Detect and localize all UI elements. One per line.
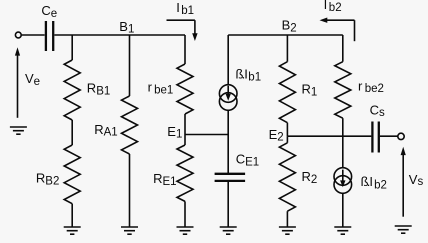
- wire r_be2 to E2: [342, 118, 344, 136]
- ground (CE1): [220, 226, 237, 228]
- svg-text:Cs: Cs: [370, 103, 385, 120]
- ground (R2): [279, 226, 296, 228]
- svg-text:RE1: RE1: [153, 171, 176, 188]
- output arrow Vs: [401, 147, 406, 155]
- wire R2 to ground: [286, 211, 288, 227]
- svg-text:RA1: RA1: [94, 122, 117, 139]
- output terminal circle: [398, 133, 404, 139]
- wire R1 to E2: [286, 123, 288, 137]
- current arrow I_b2: [327, 19, 355, 21]
- svg-text:I: I: [324, 0, 328, 12]
- capacitor CE1: [215, 174, 246, 181]
- current source U2 circles: [334, 168, 352, 186]
- current source U1 circles: [219, 85, 237, 103]
- ground (RB2): [64, 226, 81, 228]
- node E2 wire: [287, 135, 371, 137]
- wire B1 down to RA1: [129, 35, 131, 96]
- ground (input): [10, 126, 27, 128]
- capacitor Cs: [372, 122, 378, 153]
- svg-text:r: r: [148, 80, 153, 95]
- current source U1 beta.I b1 top lead: [227, 35, 229, 85]
- svg-text:b1: b1: [181, 5, 194, 17]
- svg-text:Ve: Ve: [25, 71, 40, 88]
- svg-text:b2: b2: [329, 2, 342, 14]
- svg-text:R2: R2: [302, 169, 318, 186]
- current source U2 beta.I b2 top lead: [342, 136, 344, 168]
- wire input to Ce: [21, 34, 44, 36]
- svg-text:b2: b2: [374, 180, 387, 192]
- svg-text:B1: B1: [119, 19, 134, 36]
- svg-text:be2: be2: [365, 83, 384, 95]
- svg-text:RB1: RB1: [87, 81, 110, 98]
- svg-text:I: I: [176, 0, 180, 15]
- wire Cs to output terminal: [380, 135, 398, 137]
- resistor r_be2: [335, 62, 351, 118]
- resistor r_be2 lead: [342, 35, 344, 62]
- svg-text:Vs: Vs: [409, 172, 424, 188]
- resistor RB1: [64, 60, 80, 120]
- svg-text:be1: be1: [154, 85, 173, 97]
- svg-text:b1: b1: [248, 72, 261, 84]
- wire Ce to r_be1 top (through B1): [54, 34, 185, 36]
- svg-text:RB2: RB2: [36, 171, 59, 188]
- ground (RA1): [121, 226, 138, 228]
- wire r_be1 to E1: [184, 114, 186, 135]
- svg-text:R1: R1: [302, 82, 318, 99]
- wire B1 junction down lead: [71, 35, 73, 60]
- svg-text:Ce: Ce: [41, 3, 57, 20]
- resistor r_be1: [184, 35, 186, 64]
- svg-text:B2: B2: [282, 17, 297, 34]
- current arrow I_b1: [167, 19, 195, 21]
- wire RB2 to ground: [71, 204, 73, 227]
- resistor RA1: [122, 96, 138, 154]
- current source U2 bottom lead: [342, 193, 344, 227]
- svg-text:E2: E2: [269, 127, 284, 144]
- input terminal circle: [15, 32, 21, 38]
- resistor R2: [286, 136, 288, 143]
- current source U1 bottom lead: [227, 110, 229, 134]
- ground (RE1): [177, 226, 194, 228]
- svg-text:CE1: CE1: [236, 151, 259, 168]
- resistor R1 lead: [286, 35, 288, 62]
- resistor RB2: [64, 145, 80, 204]
- ground (U2): [334, 226, 351, 228]
- wire RB1 to RB2: [71, 120, 73, 145]
- svg-text:r: r: [358, 78, 363, 93]
- capacitor CE1 top lead: [227, 135, 229, 174]
- node B2 wire: [228, 34, 343, 36]
- source arrow Ve: [15, 47, 20, 55]
- capacitor CE1 bottom lead: [227, 182, 229, 227]
- resistor RE1: [184, 135, 186, 146]
- svg-text:E1: E1: [167, 124, 182, 141]
- wire RA1 to ground: [129, 154, 131, 227]
- resistor R1: [279, 62, 295, 123]
- ground (output): [395, 225, 412, 227]
- wire RE1 to ground: [184, 201, 186, 227]
- current source U1 arrow: [227, 86, 229, 95]
- current source U2 arrow: [342, 170, 344, 182]
- node E1 wire: [185, 134, 228, 136]
- svg-text:I: I: [369, 174, 373, 189]
- capacitor Ce: [46, 21, 53, 51]
